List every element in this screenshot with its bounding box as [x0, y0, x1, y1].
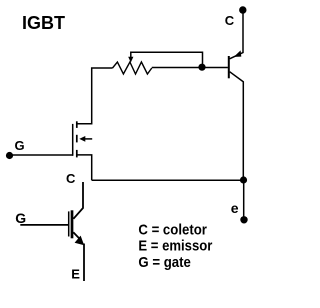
svg-text:E: E [71, 266, 80, 281]
node base junction dot [198, 64, 205, 71]
IGBT symbol collector lead [73, 182, 83, 219]
IGBT symbol gate bar [68, 211, 70, 236]
wire junction to e terminal [243, 180, 245, 217]
wire G to MOSFET gate [12, 154, 73, 156]
svg-text:G: G [15, 138, 25, 153]
transistor Q1 PNP base bar [228, 56, 230, 78]
transistor Q1 collector lead down [230, 72, 244, 181]
terminal G dot [6, 152, 13, 159]
wire resistor to PNP base through node [152, 67, 228, 69]
svg-text:e: e [231, 200, 239, 216]
MOSFET M1 gate bar [72, 124, 74, 156]
svg-text:G = gate: G = gate [138, 254, 191, 271]
svg-text:C = coletor: C = coletor [138, 222, 207, 239]
svg-text:IGBT: IGBT [22, 13, 65, 33]
resistor R1 zigzag [113, 62, 152, 74]
terminal C dot [239, 6, 246, 13]
MOSFET M1 source lead [77, 155, 91, 180]
svg-text:C: C [225, 13, 235, 28]
MOSFET M1 source tick [76, 150, 78, 158]
transistor Q1 emitter lead to C [230, 13, 243, 59]
svg-text:E = emissor: E = emissor [138, 238, 212, 255]
MOSFET M1 drain lead wire up to resistor [77, 68, 112, 124]
IGBT symbol emitter lead with arrow [73, 232, 84, 281]
IGBT symbol gate wire [20, 224, 68, 226]
node emitter junction dot [240, 176, 247, 183]
wire source node to emitter junction [92, 179, 244, 181]
variable-resistor wiper arrow [128, 57, 133, 63]
wiper feedback wire to base node [131, 52, 203, 66]
transistor Q1 emitter arrow (PNP, points to base) [234, 50, 242, 57]
MOSFET M1 body tick [76, 135, 78, 143]
terminal e dot [240, 216, 247, 223]
svg-text:G: G [15, 210, 26, 226]
IGBT symbol channel bar [71, 210, 74, 238]
MOSFET M1 drain tick [76, 121, 78, 128]
svg-text:C: C [66, 171, 76, 186]
MOSFET M1 body lead with arrow [79, 136, 92, 142]
